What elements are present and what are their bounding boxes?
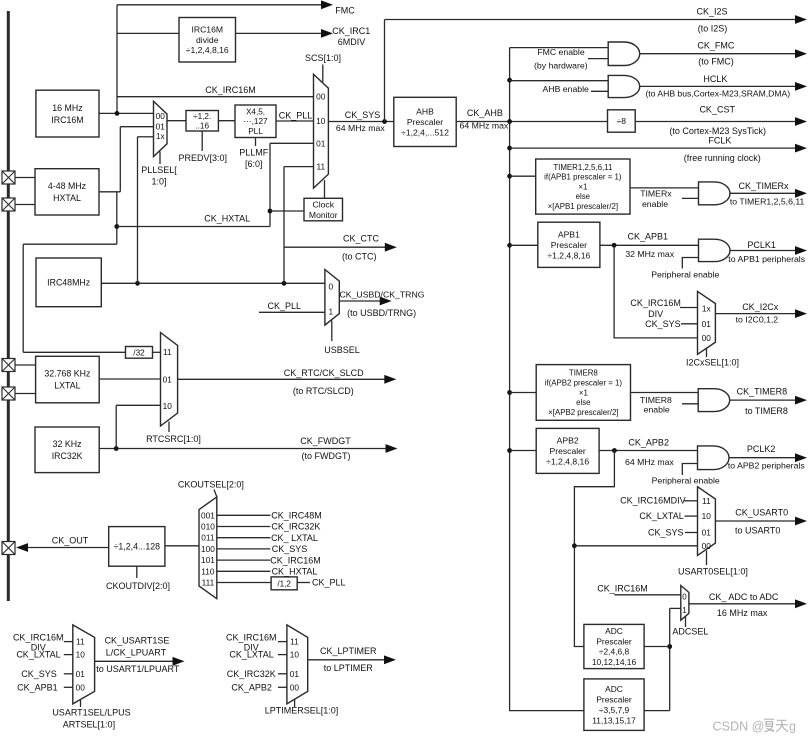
svg-text:CK_IRC16M: CK_IRC16M xyxy=(13,632,64,642)
svg-text:10: 10 xyxy=(702,511,712,521)
svg-text:÷1,2,4,8,16: ÷1,2,4,8,16 xyxy=(546,456,589,466)
svg-text:Prescaler: Prescaler xyxy=(596,636,632,646)
svg-text:IRC48MHz: IRC48MHz xyxy=(47,278,90,288)
svg-text:CK_FMC: CK_FMC xyxy=(697,41,735,51)
svg-text:Prescaler: Prescaler xyxy=(407,117,443,127)
svg-text:CK_OUT: CK_OUT xyxy=(52,535,89,545)
svg-text:÷8: ÷8 xyxy=(617,116,627,126)
svg-text:1: 1 xyxy=(328,306,333,316)
svg-text:CK_PLL: CK_PLL xyxy=(268,301,302,311)
svg-text:×[APB2 prescaler/2]: ×[APB2 prescaler/2] xyxy=(548,408,618,417)
svg-text:LPTIMERSEL[1:0]: LPTIMERSEL[1:0] xyxy=(265,706,339,716)
svg-text:32 KHz: 32 KHz xyxy=(53,439,82,449)
svg-text:CK_LXTAL: CK_LXTAL xyxy=(639,511,683,521)
svg-text:USART0SEL[1:0]: USART0SEL[1:0] xyxy=(678,566,748,576)
svg-text:ADC: ADC xyxy=(605,626,623,636)
svg-text:00: 00 xyxy=(290,682,300,692)
svg-text:to I2C0,1,2: to I2C0,1,2 xyxy=(736,315,779,325)
svg-text:16 MHz max: 16 MHz max xyxy=(717,608,768,618)
svg-text:11: 11 xyxy=(163,347,172,357)
svg-text:ADC: ADC xyxy=(605,684,623,694)
svg-text:USBSEL: USBSEL xyxy=(324,345,360,355)
svg-text:÷1,2,4,8,16: ÷1,2,4,8,16 xyxy=(186,45,229,55)
svg-text:to LPTIMER: to LPTIMER xyxy=(324,663,374,673)
svg-text:FMC: FMC xyxy=(335,6,355,16)
svg-text:AHB enable: AHB enable xyxy=(543,84,590,94)
svg-text:11: 11 xyxy=(316,162,325,172)
svg-text:32 MHz max: 32 MHz max xyxy=(625,249,674,259)
svg-text:CKOUTSEL[2:0]: CKOUTSEL[2:0] xyxy=(178,479,244,489)
svg-text:CK_SYS: CK_SYS xyxy=(648,528,684,538)
svg-text:0: 0 xyxy=(682,592,687,601)
svg-text:CK_LPTIMER: CK_LPTIMER xyxy=(320,646,377,656)
svg-text:ADCSEL: ADCSEL xyxy=(672,627,708,637)
svg-text:PLL: PLL xyxy=(248,127,263,136)
svg-text:Peripheral enable: Peripheral enable xyxy=(652,476,720,486)
svg-text:00: 00 xyxy=(156,111,166,121)
svg-text:CK_IRC32K: CK_IRC32K xyxy=(271,522,320,532)
svg-text:if(APB2 prescaler = 1): if(APB2 prescaler = 1) xyxy=(545,378,623,387)
svg-text:to APB1 peripherals: to APB1 peripherals xyxy=(728,254,805,264)
svg-text:Prescaler: Prescaler xyxy=(550,446,586,456)
svg-text:00: 00 xyxy=(76,682,86,692)
svg-text:101: 101 xyxy=(201,555,215,565)
svg-text:CSDN @: CSDN @ xyxy=(713,720,765,734)
svg-text:CK_ LXTAL: CK_ LXTAL xyxy=(271,533,318,543)
svg-text:IRC32K: IRC32K xyxy=(52,451,83,461)
svg-text:RTCSRC[1:0]: RTCSRC[1:0] xyxy=(146,434,201,444)
svg-text:1x: 1x xyxy=(702,304,712,314)
svg-text:g: g xyxy=(789,720,796,734)
svg-text:(to AHB bus,Cortex-M23,SRAM,DM: (to AHB bus,Cortex-M23,SRAM,DMA) xyxy=(645,89,790,99)
svg-text:HCLK: HCLK xyxy=(703,74,727,84)
svg-text:CK_PLL: CK_PLL xyxy=(279,110,313,120)
svg-text:Prescaler: Prescaler xyxy=(596,694,632,704)
svg-text:else: else xyxy=(576,398,591,407)
svg-text:[6:0]: [6:0] xyxy=(245,159,263,169)
svg-text:LXTAL: LXTAL xyxy=(54,381,80,391)
svg-text:01: 01 xyxy=(316,139,326,149)
svg-text:00: 00 xyxy=(702,333,712,343)
svg-text:CK_USBD/CK_TRNG: CK_USBD/CK_TRNG xyxy=(340,289,425,299)
svg-text:CK_RTC/CK_SLCD: CK_RTC/CK_SLCD xyxy=(284,368,364,378)
svg-text:if(APB1 prescaler = 1): if(APB1 prescaler = 1) xyxy=(544,173,622,182)
svg-text:CK_IRC48M: CK_IRC48M xyxy=(271,511,322,521)
svg-text:Clock: Clock xyxy=(313,199,335,209)
svg-text:TIMER8: TIMER8 xyxy=(640,395,672,405)
svg-text:11: 11 xyxy=(290,637,299,647)
svg-text:else: else xyxy=(576,192,591,201)
svg-text:6MDIV: 6MDIV xyxy=(338,37,366,47)
svg-text:(by hardware): (by hardware) xyxy=(534,60,588,70)
svg-text:×1: ×1 xyxy=(578,182,587,191)
svg-text:FCLK: FCLK xyxy=(708,136,731,146)
svg-text:PREDV[3:0]: PREDV[3:0] xyxy=(179,153,228,163)
svg-text:CK_TIMER8: CK_TIMER8 xyxy=(737,387,788,397)
svg-text:HXTAL: HXTAL xyxy=(53,193,81,203)
svg-text:÷1,2,4,...512: ÷1,2,4,...512 xyxy=(401,128,449,138)
svg-text:divide: divide xyxy=(196,35,219,45)
svg-text:10: 10 xyxy=(316,116,326,126)
svg-text:CK_IRC1: CK_IRC1 xyxy=(332,26,370,36)
svg-text:(to USBD/TRNG): (to USBD/TRNG) xyxy=(347,308,416,318)
svg-text:CK_APB1: CK_APB1 xyxy=(628,231,669,241)
svg-text:CK_IRC32K: CK_IRC32K xyxy=(227,669,276,679)
svg-text:TIMERx: TIMERx xyxy=(640,189,672,199)
svg-text:010: 010 xyxy=(201,522,215,532)
svg-text:1x: 1x xyxy=(156,131,166,141)
svg-text:TIMER1,2,5,6,11: TIMER1,2,5,6,11 xyxy=(553,163,612,172)
svg-text:×[APB1 prescaler/2]: ×[APB1 prescaler/2] xyxy=(548,202,618,211)
svg-text:..16: ..16 xyxy=(195,122,209,131)
svg-text:PCLK2: PCLK2 xyxy=(747,444,776,454)
svg-text:CK_APB2: CK_APB2 xyxy=(231,682,272,692)
svg-text:ARTSEL[1:0]: ARTSEL[1:0] xyxy=(63,719,115,729)
svg-text:32.768 KHz: 32.768 KHz xyxy=(44,369,90,379)
svg-text:01: 01 xyxy=(76,669,86,679)
svg-text:CK_LXTAL: CK_LXTAL xyxy=(229,650,273,660)
svg-text:16 MHz: 16 MHz xyxy=(52,103,82,113)
svg-text:10: 10 xyxy=(290,650,300,660)
svg-text:(to Cortex-M23 SysTick): (to Cortex-M23 SysTick) xyxy=(669,126,766,136)
svg-text:CK_HXTAL: CK_HXTAL xyxy=(272,567,318,577)
svg-text:÷1,2,4...128: ÷1,2,4...128 xyxy=(114,542,161,552)
svg-text:CK_LXTAL: CK_LXTAL xyxy=(16,650,60,660)
svg-text:001: 001 xyxy=(201,510,215,520)
svg-text:CK_SYS: CK_SYS xyxy=(21,669,57,679)
svg-text:0: 0 xyxy=(328,281,333,291)
svg-text:Monitor: Monitor xyxy=(309,210,338,220)
svg-text:/32: /32 xyxy=(133,348,145,357)
svg-text:CK_SYS: CK_SYS xyxy=(645,319,681,329)
svg-text:÷2,4,6,8: ÷2,4,6,8 xyxy=(599,647,630,657)
svg-text:to TIMER1,2,5,6,11: to TIMER1,2,5,6,11 xyxy=(730,197,805,207)
svg-text:00: 00 xyxy=(316,92,326,102)
svg-text:(to FWDGT): (to FWDGT) xyxy=(302,451,351,461)
svg-text:CK_APB2: CK_APB2 xyxy=(628,438,669,448)
svg-text:CK_IRC16M: CK_IRC16M xyxy=(597,584,648,594)
svg-text:I2CxSEL[1:0]: I2CxSEL[1:0] xyxy=(686,358,739,368)
svg-text:00: 00 xyxy=(702,541,712,551)
svg-text:÷1,2.: ÷1,2. xyxy=(193,112,211,121)
svg-text:/1,2: /1,2 xyxy=(277,579,291,588)
svg-text:to TIMER8: to TIMER8 xyxy=(745,406,788,416)
svg-text:(to CTC): (to CTC) xyxy=(342,252,377,262)
svg-text:CK_PLL: CK_PLL xyxy=(312,578,346,588)
svg-text:PLLMF: PLLMF xyxy=(239,148,269,158)
svg-text:÷1,2,4,8,16: ÷1,2,4,8,16 xyxy=(547,250,590,260)
svg-text:enable: enable xyxy=(642,199,668,209)
svg-text:11: 11 xyxy=(76,637,85,647)
svg-text:4-48 MHz: 4-48 MHz xyxy=(48,181,86,191)
svg-text:CK_FWDGT: CK_FWDGT xyxy=(300,436,351,446)
svg-text:111: 111 xyxy=(202,578,215,588)
svg-text:CK_IRC16M: CK_IRC16M xyxy=(226,632,277,642)
svg-text:to USART0: to USART0 xyxy=(735,525,780,535)
svg-text:1: 1 xyxy=(682,606,687,615)
svg-text:X4,5,: X4,5, xyxy=(246,108,265,117)
svg-text:10,12,14,16: 10,12,14,16 xyxy=(592,657,637,667)
svg-text:10: 10 xyxy=(163,401,173,411)
svg-text:enable: enable xyxy=(644,405,670,415)
svg-text:01: 01 xyxy=(156,121,166,131)
svg-text:1:0]: 1:0] xyxy=(151,177,166,187)
svg-text:USART1SEL/LPUS: USART1SEL/LPUS xyxy=(52,707,130,717)
svg-text:CK_SYS: CK_SYS xyxy=(272,544,308,554)
svg-text:L/CK_LPUART: L/CK_LPUART xyxy=(106,647,167,657)
svg-text:(to FMC): (to FMC) xyxy=(698,57,734,67)
svg-text:(to RTC/SLCD): (to RTC/SLCD) xyxy=(293,386,354,396)
svg-text:CK_IRC16M: CK_IRC16M xyxy=(270,555,321,565)
svg-text:APB1: APB1 xyxy=(558,229,580,239)
svg-text:01: 01 xyxy=(702,528,712,538)
svg-text:CKOUTDIV[2:0]: CKOUTDIV[2:0] xyxy=(106,581,170,591)
svg-text:×1: ×1 xyxy=(579,388,588,397)
svg-text:PCLK1: PCLK1 xyxy=(747,240,776,250)
svg-text:CK_HXTAL: CK_HXTAL xyxy=(204,214,250,224)
svg-text:01: 01 xyxy=(702,319,712,329)
svg-text:64 MHz max: 64 MHz max xyxy=(336,123,385,133)
svg-text:to APB2 peripherals: to APB2 peripherals xyxy=(728,461,805,471)
svg-text:CK_IRC16MDIV: CK_IRC16MDIV xyxy=(620,495,686,505)
svg-text:Prescaler: Prescaler xyxy=(551,240,587,250)
svg-text:CK_ ADC to ADC: CK_ ADC to ADC xyxy=(709,592,779,602)
svg-text:CK_TIMERx: CK_TIMERx xyxy=(738,181,789,191)
svg-text:Peripheral enable: Peripheral enable xyxy=(651,270,719,280)
svg-text:AHB: AHB xyxy=(416,106,434,116)
svg-text:CK_SYS: CK_SYS xyxy=(345,110,381,120)
svg-text:DIV: DIV xyxy=(648,309,663,319)
svg-text:CK_AHB: CK_AHB xyxy=(467,108,503,118)
svg-text:CK_IRC16M: CK_IRC16M xyxy=(630,298,681,308)
svg-text:CK_I2Cx: CK_I2Cx xyxy=(742,302,779,312)
svg-text:PLLSEL[: PLLSEL[ xyxy=(141,165,177,175)
svg-text:APB2: APB2 xyxy=(557,435,579,445)
svg-text:⋯,127: ⋯,127 xyxy=(243,117,268,126)
svg-text:CK_I2S: CK_I2S xyxy=(696,7,727,17)
svg-text:CK_APB1: CK_APB1 xyxy=(17,682,58,692)
svg-text:CK_CST: CK_CST xyxy=(699,104,735,114)
svg-text:TIMER8: TIMER8 xyxy=(569,369,599,378)
svg-text:(free running clock): (free running clock) xyxy=(684,153,761,163)
svg-text:01: 01 xyxy=(290,669,300,679)
svg-text:CK_USART1SE: CK_USART1SE xyxy=(105,636,170,646)
svg-text:011: 011 xyxy=(201,533,215,543)
svg-text:IRC16M: IRC16M xyxy=(51,115,83,125)
svg-text:CK_USART0: CK_USART0 xyxy=(735,508,788,518)
svg-text:64 MHz max: 64 MHz max xyxy=(625,457,674,467)
svg-text:10: 10 xyxy=(76,650,86,660)
svg-text:11: 11 xyxy=(702,496,711,506)
svg-text:CK_IRC16M: CK_IRC16M xyxy=(205,85,256,95)
svg-text:IRC16M: IRC16M xyxy=(191,25,223,35)
svg-text:01: 01 xyxy=(163,375,173,385)
svg-text:64 MHz max: 64 MHz max xyxy=(460,120,509,130)
svg-text:SCS[1:0]: SCS[1:0] xyxy=(305,53,341,63)
svg-text:100: 100 xyxy=(201,544,215,554)
svg-text:CK_CTC: CK_CTC xyxy=(343,233,380,243)
svg-text:(to I2S): (to I2S) xyxy=(698,23,728,33)
svg-text:FMC enable: FMC enable xyxy=(537,47,584,57)
svg-text:11,13,15,17: 11,13,15,17 xyxy=(592,715,636,725)
svg-text:÷3,5,7,9: ÷3,5,7,9 xyxy=(599,705,630,715)
svg-text:to USART1/LPUART: to USART1/LPUART xyxy=(96,664,180,674)
svg-text:110: 110 xyxy=(201,566,215,576)
